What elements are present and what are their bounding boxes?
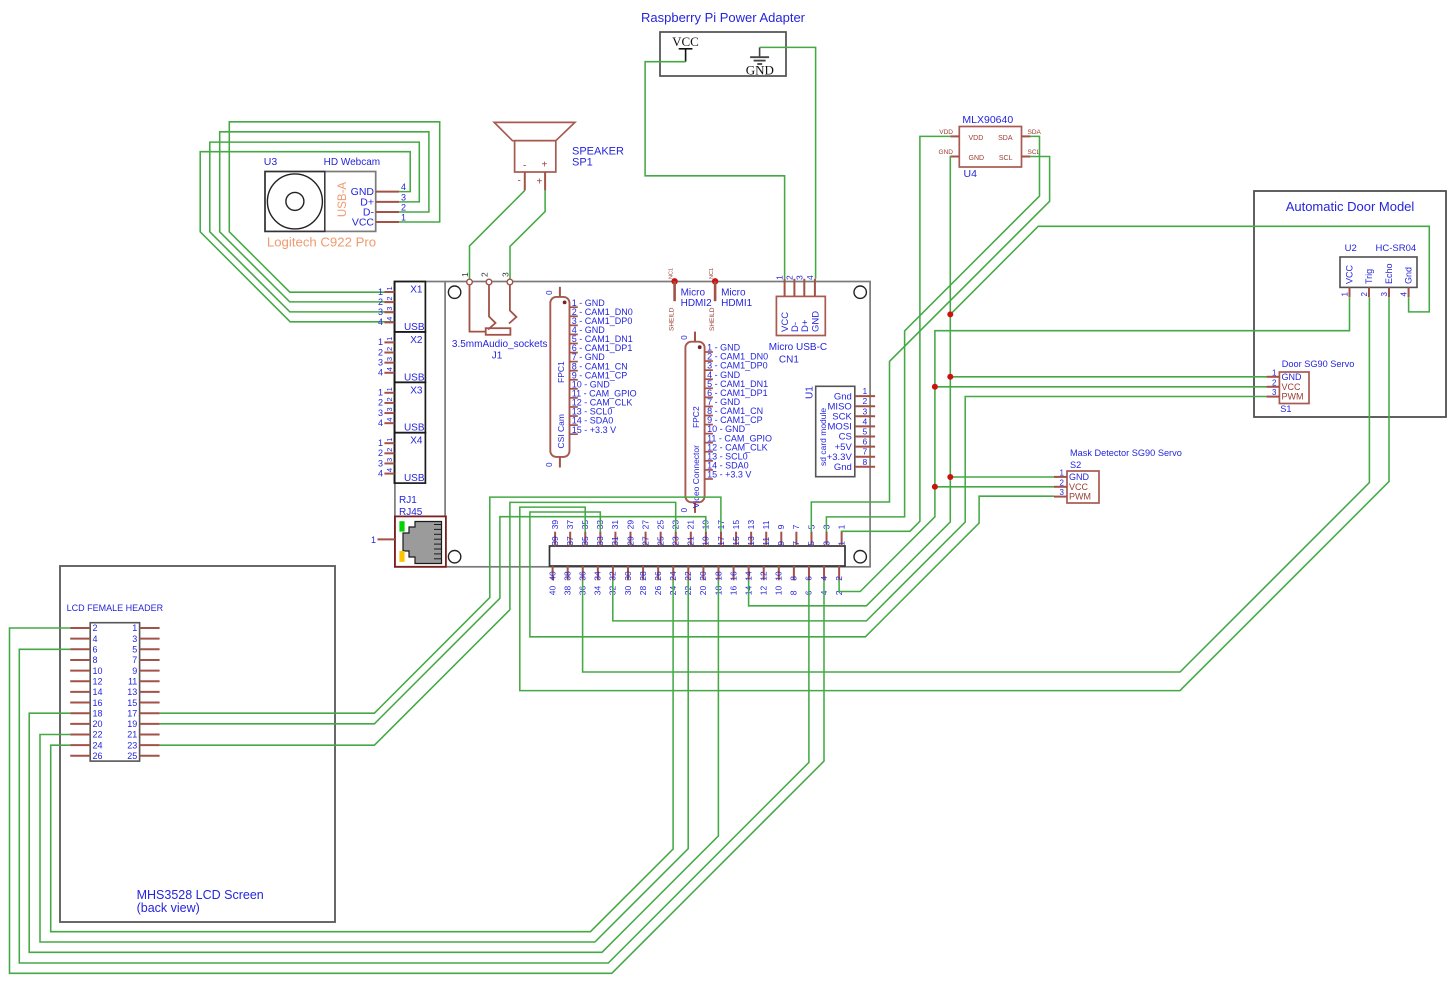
USB-C caption bbox=[769, 342, 827, 366]
svg-text:17: 17 bbox=[716, 536, 726, 546]
mask servo pin PWM bbox=[1054, 488, 1091, 502]
Micro USB-C body bbox=[776, 296, 825, 335]
svg-text:J1: J1 bbox=[492, 351, 503, 362]
X1 pin 2 bbox=[378, 296, 394, 306]
RJ45 green LED bbox=[399, 521, 404, 531]
svg-text:RJ1: RJ1 bbox=[399, 495, 417, 506]
LCD pin 6 bbox=[70, 645, 97, 655]
USB-C pin D+ bbox=[794, 275, 811, 332]
wire LCD pin18 to GPIO pin18 bbox=[29, 580, 718, 952]
svg-text:3: 3 bbox=[378, 307, 383, 317]
svg-text:GND: GND bbox=[1282, 372, 1303, 382]
svg-text:GND: GND bbox=[969, 155, 985, 162]
svg-text:4: 4 bbox=[378, 468, 383, 478]
svg-text:25: 25 bbox=[655, 536, 665, 546]
svg-text:12: 12 bbox=[759, 585, 769, 595]
X1 pin 3 bbox=[378, 307, 394, 317]
svg-text:5: 5 bbox=[806, 541, 816, 546]
svg-text:-: - bbox=[518, 176, 521, 187]
X4 pin 3 bbox=[378, 458, 394, 468]
U1 pin 3 SCK bbox=[832, 406, 875, 422]
speaker pin + stub bbox=[544, 172, 546, 190]
svg-text:3: 3 bbox=[821, 541, 831, 546]
X4 pin 2 bbox=[378, 448, 394, 458]
svg-text:1: 1 bbox=[132, 623, 137, 633]
wire GND branch to S1 GND bbox=[950, 376, 1266, 378]
svg-text:NC1: NC1 bbox=[709, 268, 715, 279]
MLX90640 pin GND bbox=[939, 149, 960, 157]
FPC2 video connector pin list bbox=[705, 343, 772, 480]
VCC supply symbol bbox=[672, 34, 699, 62]
svg-text:9: 9 bbox=[776, 524, 786, 529]
LCD pin 26 bbox=[70, 751, 102, 761]
X3 pin 2 bbox=[378, 397, 394, 407]
LCD pin 12 bbox=[70, 676, 102, 686]
svg-text:0: 0 bbox=[545, 290, 554, 295]
svg-text:11: 11 bbox=[761, 537, 771, 546]
MLX90640 pin VDD bbox=[939, 129, 959, 136]
FPC1 CSI Cam connector bottom pin 0 bbox=[545, 457, 560, 468]
svg-text:HDMI1: HDMI1 bbox=[721, 298, 753, 309]
svg-text:SCL: SCL bbox=[999, 155, 1013, 162]
svg-text:8: 8 bbox=[789, 576, 799, 581]
svg-text:S2: S2 bbox=[1070, 460, 1081, 470]
wire speaker + to audio pin3 bbox=[510, 190, 545, 280]
svg-text:Echo: Echo bbox=[1384, 263, 1394, 284]
svg-text:1: 1 bbox=[1272, 368, 1277, 377]
svg-text:3: 3 bbox=[378, 408, 383, 418]
FPC2 video connector top pin 0 bbox=[680, 332, 695, 342]
svg-text:4: 4 bbox=[93, 634, 98, 644]
Pi board inner left line bbox=[444, 282, 446, 517]
svg-text:Logitech C922 Pro: Logitech C922 Pro bbox=[267, 234, 376, 249]
svg-text:GND: GND bbox=[810, 311, 821, 332]
svg-text:13: 13 bbox=[746, 536, 756, 546]
svg-text:31: 31 bbox=[610, 520, 620, 530]
LCD pin 7 bbox=[132, 655, 159, 665]
wire webcam D+ to X1 pin3 bbox=[210, 142, 419, 312]
svg-text:2: 2 bbox=[1272, 378, 1277, 387]
wire MLX GND net bbox=[749, 157, 951, 606]
svg-text:8: 8 bbox=[789, 590, 799, 595]
audio jack pin1 lead bbox=[470, 285, 486, 332]
svg-text:4: 4 bbox=[819, 576, 829, 581]
svg-text:1: 1 bbox=[1341, 292, 1350, 297]
svg-text:9: 9 bbox=[776, 541, 786, 546]
X2 pin 2 bbox=[378, 347, 394, 357]
svg-text:2: 2 bbox=[834, 576, 844, 581]
svg-text:GND: GND bbox=[1069, 472, 1090, 482]
webcam pin D- bbox=[363, 203, 406, 219]
door servo S1 body bbox=[1279, 372, 1309, 404]
svg-text:X4: X4 bbox=[410, 436, 423, 447]
LCD pin 9 bbox=[132, 666, 159, 676]
svg-text:32: 32 bbox=[608, 571, 618, 581]
wire 5V branch to S1 VCC bbox=[935, 386, 1267, 388]
svg-text:VCC: VCC bbox=[1345, 264, 1355, 284]
LCD pin 20 bbox=[70, 719, 102, 729]
svg-text:2: 2 bbox=[93, 623, 98, 633]
svg-text:28: 28 bbox=[638, 585, 648, 595]
svg-text:S1: S1 bbox=[1280, 404, 1291, 414]
svg-text:Micro USB-C: Micro USB-C bbox=[769, 342, 827, 353]
svg-text:PWM: PWM bbox=[1069, 492, 1091, 502]
svg-text:3: 3 bbox=[401, 192, 406, 202]
webcam lens square bbox=[265, 172, 325, 232]
svg-text:3: 3 bbox=[385, 307, 394, 311]
LCD pin 19 bbox=[127, 719, 159, 729]
wire MLX SDA to GPIO pin3 bbox=[826, 136, 1039, 532]
svg-text:0: 0 bbox=[680, 335, 689, 340]
power adapter box bbox=[660, 32, 786, 76]
svg-text:3: 3 bbox=[863, 406, 868, 416]
svg-text:6: 6 bbox=[863, 437, 868, 447]
svg-text:+: + bbox=[542, 160, 548, 171]
svg-text:Mask Detector SG90 Servo: Mask Detector SG90 Servo bbox=[1070, 448, 1182, 458]
door servo pin PWM bbox=[1266, 388, 1303, 402]
svg-text:NC1: NC1 bbox=[669, 268, 675, 279]
svg-text:4: 4 bbox=[385, 418, 394, 422]
svg-text:21: 21 bbox=[127, 730, 137, 740]
svg-text:38: 38 bbox=[562, 571, 572, 581]
svg-text:4: 4 bbox=[401, 182, 406, 192]
svg-text:24: 24 bbox=[668, 571, 678, 581]
svg-text:30: 30 bbox=[623, 585, 633, 595]
wire LCD pin24 to GPIO pin24 bbox=[51, 580, 673, 932]
svg-text:1: 1 bbox=[863, 386, 868, 396]
audio jack body bbox=[486, 328, 511, 335]
svg-text:VDD: VDD bbox=[969, 135, 984, 142]
wire GPIO pin35 to HC-SR04 Echo bbox=[520, 297, 1389, 690]
wire LCD pin23 to GPIO pin23 bbox=[160, 502, 676, 745]
automatic door model box bbox=[1254, 191, 1446, 417]
svg-text:10: 10 bbox=[93, 666, 103, 676]
junction bbox=[947, 311, 953, 317]
X2 pin 4 bbox=[378, 367, 394, 377]
wire GPIO pin36 to HC-SR04 Trig bbox=[583, 297, 1370, 672]
audio socket pin 3 bbox=[500, 272, 512, 285]
svg-text:0: 0 bbox=[680, 507, 689, 512]
svg-text:VCC: VCC bbox=[1069, 482, 1089, 492]
svg-text:4: 4 bbox=[378, 317, 383, 327]
svg-text:5: 5 bbox=[863, 427, 868, 437]
svg-text:4: 4 bbox=[378, 418, 383, 428]
svg-text:37: 37 bbox=[565, 520, 575, 530]
wire LCD pin22 to GPIO pin22 bbox=[40, 580, 688, 942]
svg-text:3: 3 bbox=[378, 458, 383, 468]
svg-text:+: + bbox=[537, 177, 543, 188]
X3 pin 4 bbox=[378, 418, 394, 428]
svg-text:HD Webcam: HD Webcam bbox=[324, 157, 381, 168]
RJ45 body bbox=[395, 516, 446, 566]
svg-text:U2: U2 bbox=[1345, 243, 1357, 254]
svg-text:X1: X1 bbox=[410, 285, 423, 296]
junction bbox=[932, 484, 938, 490]
mounting hole bbox=[854, 551, 866, 563]
RJ45 labels bbox=[399, 495, 423, 518]
X3 pin 1 bbox=[378, 387, 394, 397]
svg-text:SP1: SP1 bbox=[572, 157, 593, 169]
svg-text:2: 2 bbox=[401, 203, 406, 213]
svg-text:20: 20 bbox=[698, 571, 708, 581]
svg-text:20: 20 bbox=[93, 719, 103, 729]
svg-text:USB-A: USB-A bbox=[337, 182, 349, 217]
svg-text:Gnd: Gnd bbox=[834, 462, 852, 473]
LCD caption bbox=[137, 888, 264, 915]
svg-text:HDMI2: HDMI2 bbox=[681, 298, 713, 309]
GPIO header body bbox=[550, 546, 846, 566]
wire speaker - to audio pin1 bbox=[470, 190, 525, 280]
speaker caption bbox=[572, 146, 624, 169]
svg-text:3: 3 bbox=[1380, 292, 1389, 297]
U1 pin 8 Gnd bbox=[834, 457, 875, 473]
svg-text:MLX90640: MLX90640 bbox=[962, 114, 1013, 126]
svg-text:36: 36 bbox=[578, 571, 588, 581]
svg-text:1: 1 bbox=[460, 272, 470, 277]
svg-text:VCC: VCC bbox=[672, 34, 699, 49]
svg-text:29: 29 bbox=[625, 520, 635, 530]
svg-text:FPC1: FPC1 bbox=[556, 361, 566, 383]
svg-text:3: 3 bbox=[385, 407, 394, 411]
svg-text:(back view): (back view) bbox=[137, 901, 200, 915]
USB-C pin VCC bbox=[775, 275, 792, 332]
svg-text:U3: U3 bbox=[264, 156, 278, 168]
svg-text:21: 21 bbox=[686, 520, 696, 530]
HC-SR04 pin Echo bbox=[1380, 263, 1394, 297]
svg-text:2: 2 bbox=[1360, 292, 1369, 297]
wire HC-SR04 Gnd to GND net bbox=[950, 226, 1429, 314]
mounting hole bbox=[448, 286, 460, 298]
mounting hole bbox=[448, 551, 460, 563]
FPC1 CSI Cam connector top pin 0 bbox=[545, 287, 560, 297]
svg-text:15 - +3.3 V: 15 - +3.3 V bbox=[572, 425, 616, 435]
wire 5V branch to S2 VCC bbox=[935, 486, 1054, 488]
svg-text:1: 1 bbox=[378, 438, 383, 448]
wire webcam D- to X1 pin2 bbox=[220, 132, 429, 302]
U1 body bbox=[816, 386, 855, 476]
svg-text:3: 3 bbox=[378, 357, 383, 367]
svg-text:23: 23 bbox=[127, 740, 137, 750]
svg-text:1: 1 bbox=[385, 286, 394, 290]
svg-text:0: 0 bbox=[545, 462, 554, 467]
svg-text:SHEILD: SHEILD bbox=[709, 307, 716, 331]
svg-text:HC-SR04: HC-SR04 bbox=[1376, 243, 1417, 254]
svg-text:9: 9 bbox=[132, 666, 137, 676]
wire webcam GND to X1 pin4 bbox=[200, 152, 410, 322]
svg-text:-: - bbox=[523, 161, 526, 172]
svg-text:14: 14 bbox=[93, 687, 103, 697]
svg-text:19: 19 bbox=[127, 719, 137, 729]
svg-text:25: 25 bbox=[655, 520, 665, 530]
U1 pin 7 +3.3V bbox=[827, 447, 875, 463]
svg-text:12: 12 bbox=[93, 676, 103, 686]
svg-text:GND: GND bbox=[939, 149, 954, 156]
svg-text:22: 22 bbox=[683, 571, 693, 581]
LCD pin 2 bbox=[70, 623, 97, 633]
MLX90640 inner labels bbox=[969, 135, 1013, 162]
GPIO top pins bbox=[550, 520, 847, 546]
wire GND branch to S2 GND bbox=[950, 476, 1054, 478]
svg-text:7: 7 bbox=[791, 541, 801, 546]
svg-text:SCL: SCL bbox=[1028, 149, 1041, 156]
door servo pin GND bbox=[1266, 368, 1302, 382]
svg-text:8: 8 bbox=[93, 655, 98, 665]
speaker pin labels bbox=[518, 176, 543, 188]
svg-text:2: 2 bbox=[784, 275, 794, 280]
svg-text:Raspberry Pi Power Adapter: Raspberry Pi Power Adapter bbox=[641, 10, 806, 25]
svg-text:13: 13 bbox=[746, 520, 756, 530]
svg-text:1: 1 bbox=[385, 337, 394, 341]
svg-text:40: 40 bbox=[547, 585, 557, 595]
svg-text:6: 6 bbox=[93, 645, 98, 655]
svg-text:28: 28 bbox=[638, 571, 648, 581]
svg-text:21: 21 bbox=[686, 536, 696, 546]
svg-text:27: 27 bbox=[640, 536, 650, 546]
svg-text:2: 2 bbox=[863, 396, 868, 406]
LCD pin 18 bbox=[70, 708, 102, 718]
svg-text:34: 34 bbox=[593, 585, 603, 595]
svg-text:5: 5 bbox=[132, 645, 137, 655]
LCD pin 17 bbox=[127, 708, 159, 718]
RJ45 jack bbox=[403, 522, 442, 564]
FPC2 video connector pin1 dot bbox=[698, 345, 702, 349]
X1 pin 1 bbox=[378, 286, 394, 296]
svg-text:23: 23 bbox=[671, 536, 681, 546]
svg-text:D+: D+ bbox=[800, 319, 811, 332]
svg-text:2: 2 bbox=[480, 272, 490, 277]
svg-text:16: 16 bbox=[728, 585, 738, 595]
svg-text:26: 26 bbox=[93, 751, 103, 761]
svg-text:10: 10 bbox=[774, 585, 784, 595]
svg-text:X3: X3 bbox=[410, 385, 423, 396]
svg-text:20: 20 bbox=[698, 585, 708, 595]
svg-text:2: 2 bbox=[385, 296, 394, 300]
svg-text:SDA: SDA bbox=[998, 135, 1013, 142]
wire MLX SCL to GPIO pin5 bbox=[811, 157, 1049, 533]
svg-text:3: 3 bbox=[1272, 388, 1277, 397]
svg-text:1: 1 bbox=[401, 213, 406, 223]
svg-text:10: 10 bbox=[774, 571, 784, 581]
LCD pin 14 bbox=[70, 687, 102, 697]
U1 pin 2 MISO bbox=[828, 396, 876, 412]
LCD pin 11 bbox=[128, 676, 160, 686]
svg-text:11: 11 bbox=[128, 676, 137, 686]
speaker SP1 symbol bbox=[494, 122, 575, 172]
mask servo title bbox=[1070, 448, 1182, 470]
svg-text:7: 7 bbox=[863, 447, 868, 457]
svg-text:1: 1 bbox=[385, 387, 394, 391]
svg-text:GND: GND bbox=[746, 63, 774, 78]
LCD pin 22 bbox=[70, 730, 102, 740]
wire webcam VCC to X1 pin1 bbox=[229, 122, 439, 292]
RJ45 yellow LED bbox=[399, 551, 404, 562]
FPC1 CSI Cam connector body bbox=[550, 297, 569, 457]
svg-text:4: 4 bbox=[385, 317, 394, 321]
LCD pin 8 bbox=[70, 655, 97, 665]
svg-text:2: 2 bbox=[1060, 478, 1065, 487]
svg-text:31: 31 bbox=[610, 536, 620, 546]
svg-text:3: 3 bbox=[385, 458, 394, 462]
MLX90640 pin SCL bbox=[1022, 149, 1041, 157]
svg-text:Video Connector: Video Connector bbox=[691, 445, 701, 508]
svg-text:13: 13 bbox=[127, 687, 137, 697]
svg-text:VCC: VCC bbox=[1282, 382, 1302, 392]
svg-text:4: 4 bbox=[863, 416, 868, 426]
HC-SR04 pin Gnd bbox=[1400, 267, 1414, 297]
GPIO bottom pins bbox=[547, 566, 844, 595]
svg-text:2: 2 bbox=[385, 347, 394, 351]
svg-text:3: 3 bbox=[132, 634, 137, 644]
svg-text:39: 39 bbox=[550, 536, 560, 546]
svg-text:X2: X2 bbox=[410, 335, 423, 346]
wire GPIO pin32 to S1 PWM bbox=[613, 397, 1267, 621]
svg-text:12: 12 bbox=[759, 571, 769, 581]
USB port X2 body bbox=[394, 332, 425, 382]
svg-text:24: 24 bbox=[93, 740, 103, 750]
MLX90640 pin SDA bbox=[1022, 129, 1042, 136]
svg-text:2: 2 bbox=[378, 448, 383, 458]
X4 pin 1 bbox=[378, 438, 394, 448]
webcam U3 body bbox=[265, 172, 376, 232]
svg-text:1: 1 bbox=[371, 535, 376, 545]
svg-text:3: 3 bbox=[794, 275, 804, 280]
svg-text:Automatic Door Model: Automatic Door Model bbox=[1286, 199, 1415, 214]
HC-SR04 pin VCC bbox=[1341, 264, 1355, 297]
svg-text:33: 33 bbox=[595, 536, 605, 546]
FPC2 video connector bottom pin 0 bbox=[680, 502, 695, 513]
webcam lens inner circle bbox=[286, 192, 304, 210]
LCD pin 3 bbox=[132, 634, 159, 644]
svg-text:2: 2 bbox=[378, 297, 383, 307]
FPC1 CSI Cam connector pin1 dot bbox=[563, 301, 567, 305]
svg-text:1: 1 bbox=[378, 337, 383, 347]
svg-text:3: 3 bbox=[385, 357, 394, 361]
svg-text:22: 22 bbox=[93, 730, 103, 740]
U1 pin 6 +5V bbox=[835, 437, 875, 453]
X2 pin 1 bbox=[378, 337, 394, 347]
LCD pin 10 bbox=[70, 666, 102, 676]
svg-text:Gnd: Gnd bbox=[1404, 267, 1414, 284]
speaker pin - stub bbox=[524, 172, 526, 190]
LCD pin 1 bbox=[132, 623, 159, 633]
webcam lens outer circle bbox=[267, 174, 322, 229]
svg-text:7: 7 bbox=[132, 655, 137, 665]
X4 pin 4 bbox=[378, 468, 394, 478]
svg-text:1: 1 bbox=[1060, 468, 1065, 477]
svg-text:FPC2: FPC2 bbox=[691, 406, 701, 428]
svg-text:4: 4 bbox=[1400, 292, 1409, 297]
HC-SR04 pin Trig bbox=[1360, 269, 1374, 297]
svg-text:1: 1 bbox=[836, 541, 846, 546]
USB port X1 body bbox=[394, 282, 425, 332]
svg-text:2: 2 bbox=[385, 397, 394, 401]
svg-text:17: 17 bbox=[127, 708, 137, 718]
svg-text:37: 37 bbox=[565, 536, 575, 546]
svg-text:2: 2 bbox=[378, 347, 383, 357]
svg-text:MHS3528 LCD Screen: MHS3528 LCD Screen bbox=[137, 888, 264, 902]
ground symbol GND bbox=[746, 47, 774, 77]
LCD screen box bbox=[60, 566, 335, 922]
mounting hole bbox=[854, 286, 866, 298]
svg-text:29: 29 bbox=[625, 536, 635, 546]
LCD pin 24 bbox=[70, 740, 102, 750]
svg-text:38: 38 bbox=[562, 585, 572, 595]
RJ45 pin 1 bbox=[371, 535, 395, 545]
svg-text:Micro: Micro bbox=[681, 288, 706, 299]
svg-text:30: 30 bbox=[623, 571, 633, 581]
svg-text:6: 6 bbox=[804, 576, 814, 581]
door servo pin VCC bbox=[1266, 378, 1301, 392]
